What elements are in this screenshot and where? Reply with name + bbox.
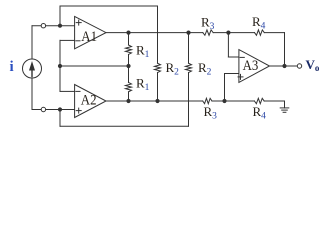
svg-text:i: i [10,59,14,75]
svg-text:A3: A3 [243,58,259,74]
svg-text:A1: A1 [81,29,97,45]
svg-text:A2: A2 [81,93,97,109]
